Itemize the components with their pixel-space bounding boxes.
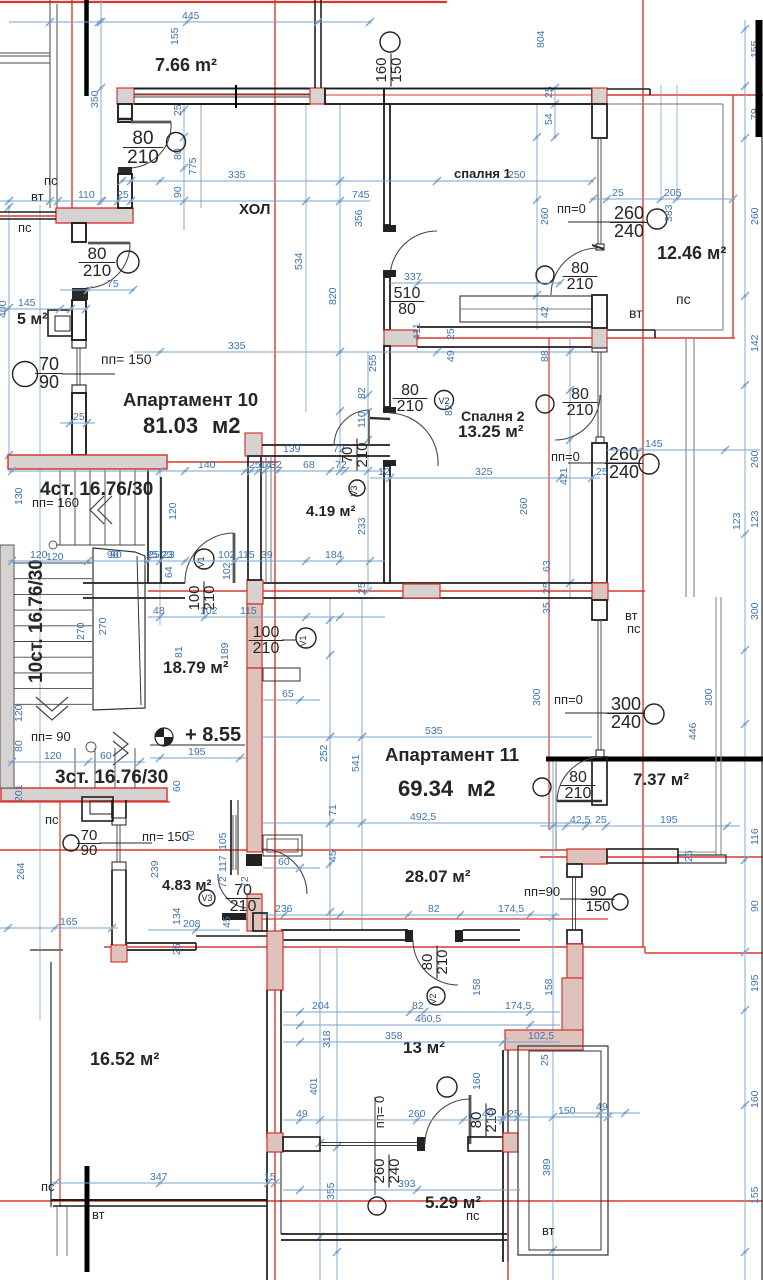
svg-text:174,5: 174,5 [498, 903, 524, 915]
window leader 5.29 [374, 1097, 376, 1195]
wall block window band left [117, 88, 134, 104]
svg-text:вт: вт [542, 1223, 555, 1238]
dim 383 rot [663, 204, 675, 222]
wall block divider left [384, 330, 417, 346]
svg-text:120: 120 [46, 551, 64, 563]
door 510 arc [390, 231, 437, 276]
circle V3 top [349, 480, 365, 497]
svg-text:358: 358 [385, 1030, 403, 1042]
svg-text:120: 120 [13, 704, 25, 722]
room label 69.34 [398, 776, 496, 801]
svg-text:745: 745 [352, 189, 370, 201]
svg-text:15: 15 [264, 1171, 276, 1183]
dim 165 y928 [0, 916, 118, 932]
wall ap11 bottom left [281, 930, 408, 940]
svg-text:пс: пс [466, 1208, 480, 1223]
dim 42 rot [539, 306, 551, 318]
stair bottom flight risers [75, 748, 135, 788]
svg-text:82: 82 [412, 1000, 424, 1012]
wall column 18.79 right upper [247, 604, 262, 668]
svg-text:49: 49 [482, 1108, 494, 1120]
svg-text:210: 210 [127, 147, 159, 168]
wall 4.83 left lower [112, 870, 126, 945]
wall left x72-86 lower [72, 393, 86, 455]
door label+circle 100/210 v1b [249, 624, 316, 657]
dim 260 rot sp2b [518, 497, 530, 515]
wall x384 lower [384, 466, 390, 583]
svg-text:64: 64 [163, 566, 175, 578]
dim 88 rot sp2c [539, 350, 551, 362]
svg-text:13.25 м²: 13.25 м² [458, 422, 524, 441]
svg-text:45: 45 [327, 850, 339, 862]
wall thick black bar top-right [756, 20, 763, 137]
wall 13 right [503, 1050, 508, 1137]
dim 255 rot sp2 [367, 354, 379, 372]
door label+circle 70/210 v3b [199, 882, 260, 915]
window label+circle 70/90 lower [63, 827, 152, 859]
axis line horizontal y216 [0, 215, 133, 217]
dim line vertical x101 [89, 0, 105, 205]
dim 270 rot rail [97, 617, 109, 635]
svg-text:5 м²: 5 м² [17, 311, 48, 328]
wall 4.19 top gray block [245, 433, 262, 456]
axis line vertical x72 [71, 0, 73, 216]
wall thick black bar top-left [84, 0, 89, 96]
svg-text:421: 421 [558, 467, 570, 485]
svg-text:150: 150 [585, 898, 610, 915]
svg-text:25: 25 [595, 814, 607, 826]
dim line vertical x320 bottom [308, 947, 324, 1280]
door jamb left wall y288 [72, 288, 88, 300]
window right ap11 [596, 620, 604, 757]
svg-text:82: 82 [443, 404, 455, 416]
wall right lower pier2 [567, 930, 582, 944]
pier пс bar [56, 208, 133, 223]
svg-text:26: 26 [683, 850, 695, 862]
dim line vertical x661 top balcony [660, 85, 662, 200]
wall 7.37 window top pier [592, 757, 607, 805]
stair label 10ст rot [26, 559, 47, 683]
door hol nw leaf [131, 121, 171, 124]
svg-text:4.19 м²: 4.19 м² [306, 503, 355, 520]
window label+circle 260/240 sp1 [557, 201, 667, 241]
svg-text:160: 160 [749, 1090, 761, 1108]
wall corridor left verticals [50, 0, 57, 208]
axis line vertical x508 [507, 1050, 509, 1280]
stair small circle top [49, 541, 57, 549]
svg-text:510: 510 [394, 285, 421, 302]
door label 510/80 [390, 285, 425, 318]
door label 100/210 v1 rot [186, 582, 218, 615]
svg-text:150: 150 [558, 1105, 576, 1117]
svg-text:54: 54 [543, 113, 555, 125]
wall block sp2 bottom [403, 584, 440, 598]
svg-text:80: 80 [401, 382, 419, 399]
window label+circle 300/240 ap11 [554, 692, 664, 732]
dim line vertical x306 hall [305, 104, 307, 412]
svg-text:25: 25 [356, 582, 368, 594]
dim line vertical x337 bottom [325, 947, 341, 1280]
svg-text:71: 71 [327, 804, 339, 816]
dim line vertical x340 hall [336, 104, 344, 475]
svg-text:165: 165 [60, 916, 78, 928]
window left wall 70/90 [72, 340, 86, 393]
wall 4.19 left [248, 456, 261, 580]
svg-text:184: 184 [325, 549, 343, 561]
svg-text:102: 102 [218, 549, 236, 561]
svg-text:80: 80 [132, 128, 153, 149]
svg-text:25: 25 [117, 189, 129, 201]
dim line vertical x40 [39, 205, 41, 1020]
window label+circle 70/90 left [13, 354, 116, 392]
door label 80/210 v2b rot [419, 946, 451, 979]
door label+circle 80/210 sp1 [536, 260, 597, 293]
svg-text:204: 204 [312, 1000, 330, 1012]
svg-text:134: 134 [171, 907, 183, 925]
window 4.83 mid [233, 815, 236, 870]
svg-text:13 м²: 13 м² [403, 1038, 445, 1057]
svg-text:210: 210 [354, 442, 371, 467]
svg-text:210: 210 [253, 640, 280, 657]
wall right lower pier [567, 864, 582, 877]
svg-text:130: 130 [13, 487, 25, 505]
circle V1 [194, 549, 214, 569]
wall divider sp1 sp2 [417, 327, 592, 347]
svg-text:116: 116 [749, 828, 761, 845]
svg-text:35: 35 [541, 602, 553, 614]
svg-text:775: 775 [187, 157, 199, 175]
dim line vertical x537 sp1 [533, 104, 541, 330]
svg-text:145: 145 [18, 297, 36, 309]
svg-text:90: 90 [110, 549, 122, 561]
dim 775 rot [187, 157, 199, 175]
door v1b arc [262, 849, 307, 894]
door v2b arc [413, 940, 458, 985]
svg-text:535: 535 [425, 725, 443, 737]
axis line horizontal y591 [148, 590, 645, 592]
svg-text:25: 25 [172, 104, 184, 116]
svg-text:325: 325 [475, 466, 493, 478]
axis line horizontal y953 [645, 952, 763, 954]
room label 13 [403, 1038, 445, 1057]
svg-text:260: 260 [518, 497, 530, 515]
terrace 12.46 inner outline [607, 104, 723, 330]
door hall w arc [86, 243, 130, 288]
dim line vertical x184 hol [172, 104, 188, 230]
svg-text:7.37 м²: 7.37 м² [633, 770, 689, 789]
door v1 arc [185, 533, 234, 583]
svg-text:260: 260 [539, 207, 551, 225]
label вт bottom-right [542, 1223, 555, 1238]
door label 80/210 5.29 rot [468, 1104, 500, 1137]
svg-text:82: 82 [428, 903, 440, 915]
svg-text:120: 120 [167, 502, 179, 520]
wall thick bar 7.37 [546, 757, 763, 762]
svg-text:102: 102 [221, 562, 233, 580]
dim 49 rot sp2 [445, 350, 457, 362]
axis line horizontal y95 in wall [117, 94, 607, 96]
svg-text:V1: V1 [298, 635, 308, 646]
svg-text:65: 65 [282, 688, 294, 700]
wall block right lower [567, 944, 583, 978]
svg-text:45: 45 [221, 916, 233, 928]
dim 820 rot [327, 287, 339, 305]
svg-text:42: 42 [539, 306, 551, 318]
dim 534 rot hall [293, 252, 305, 270]
svg-text:233: 233 [356, 517, 368, 535]
svg-text:63: 63 [541, 560, 553, 572]
svg-text:пс: пс [18, 220, 32, 235]
door label+circle 80/210 v2 [393, 382, 454, 415]
wall spalnya1 top band [384, 89, 592, 105]
wall block 5.29 se [503, 1133, 518, 1152]
svg-text:260: 260 [614, 203, 644, 223]
door 5.29 leaf [469, 1095, 472, 1144]
dim 318 rot [321, 1030, 333, 1048]
door label+circle 80/210 sp2 [536, 386, 597, 419]
svg-text:411: 411 [411, 323, 423, 340]
svg-text:155: 155 [749, 1186, 761, 1204]
dim line vertical x160 stair [159, 470, 161, 625]
balcony 7.37 left edge [555, 762, 557, 849]
svg-text:пс: пс [627, 621, 641, 636]
room label хол [239, 201, 270, 218]
svg-text:48: 48 [153, 605, 165, 617]
dim 460,5 row [283, 1013, 560, 1029]
svg-text:240: 240 [609, 462, 639, 482]
door v3a arc [334, 410, 369, 445]
window label пп=150 left [101, 351, 152, 367]
svg-text:208: 208 [183, 918, 201, 930]
svg-text:356: 356 [353, 209, 365, 227]
circle 5.29 door [437, 1077, 457, 1097]
wall 5.29 left vertical [267, 1152, 281, 1280]
svg-text:264: 264 [15, 862, 27, 880]
svg-text:240: 240 [614, 221, 644, 241]
dim 13m2 260 row [283, 1108, 530, 1124]
axis line horizontal y462 [8, 461, 278, 463]
room label вт right [629, 305, 643, 321]
svg-text:16.52 м²: 16.52 м² [90, 1049, 159, 1069]
window 5.29 glazing [320, 1143, 417, 1146]
axis line horizontal y947 [104, 946, 645, 948]
svg-text:90: 90 [81, 842, 98, 859]
svg-text:пс: пс [676, 291, 691, 307]
svg-text:69.34: 69.34 [398, 776, 454, 801]
dim line vertical x677 top balcony [676, 85, 678, 200]
wall пс left stub [0, 212, 56, 219]
label пс top-left [44, 173, 58, 188]
svg-text:пп=0: пп=0 [551, 449, 580, 464]
svg-text:102,5: 102,5 [528, 1030, 554, 1042]
svg-text:42,5: 42,5 [570, 814, 591, 826]
svg-text:252: 252 [318, 744, 330, 762]
wall column 18.79 right main [247, 668, 262, 852]
niche 5m2 [48, 310, 72, 336]
svg-text:446: 446 [687, 722, 699, 740]
svg-text:пп= 160: пп= 160 [32, 495, 79, 510]
window label+circle 90/150 [524, 883, 628, 915]
wall column below door [247, 894, 262, 931]
svg-text:60: 60 [278, 856, 290, 868]
wall 16.52 bottom [51, 1200, 267, 1206]
room label пс right [676, 291, 691, 307]
svg-text:120: 120 [44, 750, 62, 762]
terrace 12.46 top edge [607, 89, 650, 95]
svg-text:25: 25 [148, 549, 160, 561]
dim 75 door [60, 278, 137, 294]
wall block 5.29 sw [267, 1133, 283, 1152]
stair top flight risers [60, 470, 135, 545]
svg-text:пп=0: пп=0 [557, 201, 586, 216]
dim 239 rot [149, 860, 161, 878]
dim line vertical x9 [0, 203, 13, 470]
balcony BT outer [518, 1046, 608, 1255]
svg-text:201: 201 [13, 784, 25, 802]
svg-text:82: 82 [356, 387, 368, 399]
balcony 7.37 inner lines [677, 597, 721, 855]
dim line vertical x745 right edge [741, 20, 761, 1280]
door v3b arc [218, 874, 246, 908]
svg-text:49: 49 [596, 1101, 608, 1113]
svg-text:140: 140 [198, 459, 216, 471]
svg-text:72: 72 [239, 876, 251, 888]
svg-text:25: 25 [171, 943, 183, 955]
room label 7.37 [633, 770, 689, 789]
svg-text:пп= 150: пп= 150 [101, 351, 152, 367]
dim line vertical x362 ap11 [350, 598, 366, 930]
svg-text:80: 80 [398, 301, 416, 318]
svg-text:389: 389 [541, 1158, 553, 1176]
svg-text:210: 210 [230, 898, 257, 915]
window label пп=150 lower [142, 829, 189, 844]
door jamb 510 bottom [383, 270, 396, 277]
stair railing trapezoid [93, 548, 145, 710]
wall corridor top band left [83, 583, 185, 598]
svg-text:123: 123 [749, 510, 761, 528]
wall 13 top right pink [505, 1030, 583, 1050]
svg-text:401: 401 [308, 1077, 320, 1095]
svg-text:270: 270 [97, 617, 109, 635]
dim stair 25 23 [148, 549, 173, 561]
niche 4.83 top [82, 797, 113, 821]
door hol nw arc [131, 122, 171, 168]
wardrobe spalnya1 [460, 296, 592, 322]
dim 120 60 stair row [8, 750, 145, 766]
dim 70 rot 483 [185, 830, 197, 842]
room label 81.03 [143, 413, 241, 438]
svg-text:123: 123 [731, 512, 743, 530]
svg-text:210: 210 [565, 785, 592, 802]
room label 7.66 [155, 55, 217, 75]
svg-text:пс: пс [41, 1179, 55, 1194]
svg-text:260: 260 [749, 450, 761, 468]
window label 260/240 rot 5.29 [371, 1155, 403, 1188]
window right sp1 [596, 138, 604, 250]
svg-text:110: 110 [78, 189, 95, 201]
wall left x72-86 mid [72, 300, 86, 340]
dim top 445 [9, 10, 374, 26]
wall 5.29 right vertical [503, 1152, 508, 1262]
wall x384 spalnya1 upper [384, 104, 390, 225]
svg-text:145: 145 [645, 438, 663, 450]
svg-text:102: 102 [200, 605, 218, 617]
svg-text:80: 80 [13, 740, 25, 752]
wall 16.52 top [127, 936, 267, 950]
circle 5.29 window [368, 1197, 386, 1215]
label пс 7.37 [627, 621, 641, 636]
svg-text:4.83 м²: 4.83 м² [162, 877, 211, 894]
dim 25 205 top right [589, 187, 737, 203]
svg-text:210: 210 [567, 276, 594, 293]
svg-text:142: 142 [749, 334, 761, 352]
window label+circle 160/150 top [373, 32, 405, 87]
svg-text:25: 25 [73, 411, 85, 423]
stair left column [0, 545, 14, 788]
window right lower [573, 877, 576, 930]
svg-text:м2: м2 [467, 776, 496, 801]
dim 337 sp [390, 271, 564, 287]
svg-text:28.07 м²: 28.07 м² [405, 867, 471, 886]
door 80 7.37 arc [557, 757, 602, 801]
label вт top-left [31, 189, 44, 204]
svg-text:335: 335 [228, 340, 246, 352]
room label 4.83 [162, 877, 211, 894]
svg-text:300: 300 [531, 688, 543, 706]
door jamb v2 bottom [383, 460, 396, 466]
stair label пп90 [31, 729, 71, 744]
dim hall row y471 [8, 459, 385, 475]
svg-text:49: 49 [445, 350, 457, 362]
svg-text:60: 60 [171, 780, 183, 792]
dim 804 rot [535, 30, 547, 48]
window right sp2 [596, 352, 604, 443]
svg-text:110: 110 [356, 411, 368, 428]
axis line horizontal y857 [540, 856, 763, 858]
door jamb v1b [246, 854, 262, 866]
wall block corridor junction [247, 580, 263, 604]
dim bt 150 [497, 1105, 612, 1121]
dim 134 rot [171, 907, 183, 925]
wall left x72-86 upper block [72, 223, 86, 242]
dim 300 rot pair [531, 688, 715, 706]
stair landing bar bottom [1, 788, 167, 801]
room label 4.19 [306, 503, 355, 520]
svg-text:355: 355 [325, 1182, 337, 1200]
wall 4.19 shelf line [266, 456, 271, 583]
dim v1 row2 y617 [148, 605, 385, 621]
wall ap11 bottom right [463, 930, 520, 940]
svg-text:189: 189 [219, 642, 231, 660]
wall 16.52 top left stub [30, 949, 63, 951]
room label 18.79 [163, 658, 229, 677]
room label 12.46 [657, 243, 726, 263]
svg-text:пс: пс [44, 173, 58, 188]
wall 16.52 left [50, 962, 52, 1207]
svg-text:270: 270 [75, 622, 87, 640]
dim 155 rot top [169, 27, 181, 45]
dim 25 rot 483 [171, 943, 183, 955]
svg-text:70: 70 [39, 354, 59, 374]
dim 189 rot [219, 642, 231, 660]
svg-text:383: 383 [663, 204, 675, 222]
svg-text:Апартамент 11: Апартамент 11 [385, 744, 519, 765]
svg-text:80: 80 [569, 769, 587, 786]
stair label пп160 [32, 495, 79, 510]
svg-text:445: 445 [182, 10, 200, 22]
wall hol west upper [118, 174, 132, 208]
wall block spalnya1 top right [592, 88, 607, 104]
